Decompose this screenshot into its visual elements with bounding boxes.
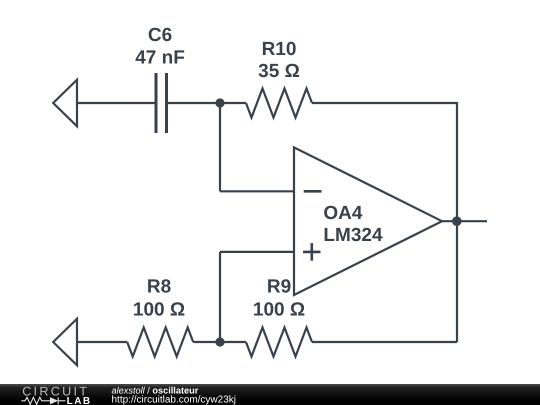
svg-text:R10: R10 (262, 39, 297, 60)
resistor R9 (246, 328, 312, 357)
footer bar (0, 384, 540, 405)
op-amp minus sign (304, 190, 322, 193)
junction node A (215, 98, 224, 107)
op-amp OA4 triangle (294, 147, 442, 295)
capacitor C6 (156, 73, 167, 133)
svg-text:R9: R9 (267, 277, 291, 298)
wire terminal2 to R8 (77, 341, 127, 343)
svg-text:OA4: OA4 (323, 203, 363, 224)
CircuitLab logo resistor+diode symbol (21, 397, 65, 404)
terminal input 1 (top left) (53, 80, 77, 127)
junction node B (215, 337, 224, 346)
svg-text:47 nF: 47 nF (135, 47, 185, 68)
svg-text:LM324: LM324 (323, 225, 383, 246)
wire to op-amp non-inverting input (220, 251, 294, 253)
resistor R10 (246, 89, 312, 118)
svg-text:100 Ω: 100 Ω (133, 299, 185, 320)
resistor R8 (127, 328, 193, 357)
wire R10 to right rail and down (feedback) (312, 103, 457, 342)
svg-text:http://circuitlab.com/cyw23kj: http://circuitlab.com/cyw23kj (112, 394, 237, 405)
terminal input 2 (bottom left) (53, 319, 77, 366)
wire node A down to inverting input (219, 103, 221, 191)
svg-text:LAB: LAB (67, 396, 92, 405)
wire R8 to node B to R9 (193, 341, 246, 343)
wire node A to R10 (220, 102, 246, 104)
wire R9 to right rail (312, 341, 457, 343)
svg-text:35 Ω: 35 Ω (258, 61, 300, 82)
svg-text:C6: C6 (148, 25, 172, 46)
wire op-amp output to stub (442, 220, 487, 222)
wire C6 to node A (168, 102, 220, 104)
svg-text:R8: R8 (147, 277, 171, 298)
wire non-inverting input down to node B (219, 252, 221, 342)
wire terminal1 to C6 (77, 102, 155, 104)
junction output node (452, 216, 462, 226)
wire to op-amp inverting input (220, 190, 294, 192)
op-amp plus sign (303, 243, 321, 261)
svg-text:100 Ω: 100 Ω (253, 299, 305, 320)
